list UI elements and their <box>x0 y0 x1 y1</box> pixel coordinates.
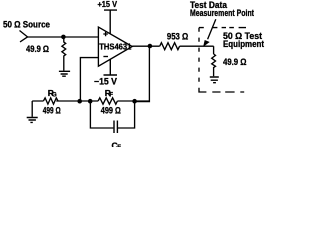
wire input <box>27 36 98 38</box>
arrow pointer to measurement point <box>208 19 216 39</box>
node E output junction <box>148 44 153 49</box>
resistor R2 953 Ohm <box>160 43 180 50</box>
dashed boundary vertical (test equipment) <box>198 28 200 87</box>
wire CF loop right <box>118 101 135 128</box>
node A input junction <box>61 35 66 40</box>
wire bottom rail <box>32 100 149 102</box>
capacitor CF <box>114 121 117 134</box>
svg-text:+15 V: +15 V <box>98 0 118 9</box>
svg-text:499 Ω: 499 Ω <box>101 106 121 116</box>
wire test load corner <box>213 46 215 54</box>
svg-text:−15 V: −15 V <box>94 76 117 86</box>
svg-text:499 Ω: 499 Ω <box>43 106 61 116</box>
source arrow (signal source) <box>20 31 28 42</box>
ground (RG) <box>27 118 38 123</box>
svg-text:953 Ω: 953 Ω <box>167 31 188 41</box>
resistor R3 49.9 Ohm test load <box>212 54 216 76</box>
op-amp plus input marker <box>103 32 108 37</box>
op-amp minus input marker <box>103 56 108 58</box>
wire CF loop left <box>90 101 113 128</box>
resistor R1 49.9 Ohm vertical <box>62 37 66 71</box>
dashed boundary top <box>199 27 246 29</box>
dashed boundary bottom <box>212 91 244 93</box>
wire feedback to inverting input <box>80 58 98 101</box>
svg-text:F: F <box>117 145 121 147</box>
node B feedback junction <box>77 99 82 104</box>
wire output to feedback rail <box>135 46 150 102</box>
svg-text:Equipment: Equipment <box>223 39 264 49</box>
wire RG to ground <box>31 101 33 117</box>
resistor RF 499 Ohm <box>98 98 117 104</box>
power +15 V terminal <box>104 10 117 34</box>
resistor RG 499 Ohm <box>43 98 58 104</box>
dashed boundary bottom corner <box>199 88 206 92</box>
svg-text:49.9 Ω: 49.9 Ω <box>223 57 247 67</box>
node C CF left junction <box>88 99 93 104</box>
svg-text:THS4631: THS4631 <box>99 43 131 52</box>
ground (input termination) <box>59 71 70 76</box>
wire op-amp output <box>132 45 213 47</box>
power -15 V terminal <box>104 59 118 75</box>
node D RF/CF right junction <box>132 99 137 104</box>
svg-text:Measurement Point: Measurement Point <box>190 8 254 18</box>
svg-text:50 Ω Source: 50 Ω Source <box>3 19 50 29</box>
ground (test equipment) <box>210 77 219 83</box>
op-amp U1 THS4631 <box>98 27 132 66</box>
svg-text:49.9 Ω: 49.9 Ω <box>26 44 49 54</box>
